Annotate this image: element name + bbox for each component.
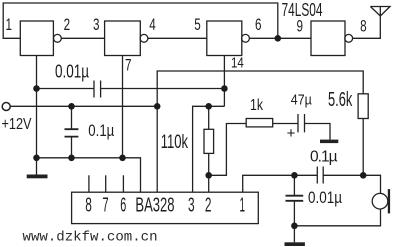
svg-text:0.1µ: 0.1µ [310, 148, 338, 165]
wire pin 7 of 74LS04 to ground row [122, 56, 124, 158]
svg-text:47µ: 47µ [291, 92, 312, 109]
wire pin 14 of 74LS04 down [223, 56, 225, 107]
inverter U1B output bubble [140, 34, 148, 42]
junction mic return at C5 bottom [291, 223, 298, 230]
wire U1A bottom pin to ground row [36, 56, 38, 158]
junction node A pin6 feedback [275, 35, 282, 42]
microphone MIC body [372, 193, 388, 209]
svg-text:14: 14 [231, 56, 244, 72]
capacitor C4 0.1u plates [317, 167, 323, 184]
svg-text:2: 2 [64, 15, 71, 34]
svg-text:BA328: BA328 [135, 195, 174, 217]
wire pin 2 to pin 3 [61, 37, 105, 39]
resistor R1 110k bottom lead [208, 153, 210, 175]
wire 0.1u to microphone [323, 175, 380, 193]
wire decoupling cap right lead to pin 14 [101, 88, 225, 90]
BA328 pin 7 stub [105, 175, 107, 192]
junction +12V corner [154, 103, 161, 110]
wire ground stem G3 [293, 226, 295, 243]
svg-text:+12V: +12V [2, 116, 33, 133]
wire pin 6 to pin 9 [249, 37, 311, 39]
svg-text:8: 8 [360, 17, 367, 36]
junction ground row left [33, 155, 40, 162]
resistor R1 110k top lead [208, 106, 210, 129]
svg-text:8: 8 [85, 194, 92, 216]
junction 0.1u top on +12V rail [68, 103, 75, 110]
capacitor C5 0.01u plates [286, 196, 304, 201]
svg-text:0.01µ: 0.01µ [308, 188, 342, 207]
capacitor C2 0.1u leads [71, 106, 73, 158]
wire BA328 pin 1 to output row [243, 175, 318, 192]
capacitor C2 0.1u plates [65, 129, 79, 136]
resistor R1 110k body [204, 129, 214, 153]
inverter U1A output bubble [54, 34, 62, 42]
junction 5.6k bottom [360, 172, 367, 179]
inverter U1D box pins 9-8 [311, 21, 345, 56]
svg-text:3: 3 [93, 15, 100, 34]
junction 0.01u right at pin 14 [221, 85, 228, 92]
terminal +12V [2, 103, 10, 111]
wire decoupling cap left lead [37, 88, 95, 90]
inverter U1A box pins 1-2 [20, 21, 53, 56]
resistor R2 1k body [246, 119, 273, 127]
wire +12V down to BA328 supply pin [156, 106, 158, 192]
ground G3 [285, 242, 305, 246]
svg-text:+: + [287, 125, 296, 142]
capacitor C5 0.01u bottom lead [293, 202, 295, 226]
wire pin 8 to antenna [352, 16, 380, 38]
svg-text:3: 3 [188, 194, 195, 216]
junction pin 7 ground [119, 155, 126, 162]
svg-text:110k: 110k [161, 132, 189, 153]
wire node B to 1k resistor [209, 124, 247, 176]
capacitor C5 0.01u top lead [293, 175, 295, 195]
ground G1 [27, 175, 48, 179]
junction node B 110k bottom [205, 172, 212, 179]
inverter U1C output bubble [242, 34, 250, 42]
svg-text:7: 7 [125, 55, 132, 74]
capacitor C3 47u plates [298, 114, 305, 132]
inverter U1C box pins 5-6 [207, 21, 242, 56]
antenna symbol [370, 7, 390, 17]
BA328 pin 6 stub [122, 175, 124, 192]
junction 0.1u bottom [68, 155, 75, 162]
wire pin 4 to pin 5 [148, 37, 207, 39]
wire +12V rail [10, 105, 157, 107]
svg-text:4: 4 [149, 15, 156, 34]
inverter U1B box pins 3-4 [105, 21, 141, 56]
svg-text:www.dzkfw.com.cn: www.dzkfw.com.cn [23, 230, 158, 246]
BA328 IC box [72, 192, 259, 223]
wire ground stem G1 [36, 158, 38, 175]
wire pin14 node to BA328 pin 3 [193, 106, 225, 192]
svg-text:5.6k: 5.6k [328, 88, 353, 111]
svg-text:1k: 1k [250, 97, 264, 114]
wire node B to BA328 pin 2 [208, 175, 210, 192]
junction output row at C5 [291, 172, 298, 179]
wire 1k to 47u [273, 123, 298, 125]
wire ground row to BA328 [37, 158, 141, 192]
svg-text:6: 6 [120, 194, 126, 216]
svg-text:5: 5 [194, 15, 201, 34]
svg-text:6: 6 [255, 15, 262, 34]
ground G2 [320, 140, 338, 144]
inverter U1D output bubble [345, 34, 353, 42]
wire feedback top from node A to pin 1 input [3, 3, 278, 38]
capacitor C1 0.01u plates [94, 81, 101, 98]
svg-text:0.01µ: 0.01µ [55, 62, 89, 82]
svg-text:7: 7 [102, 194, 108, 216]
svg-text:1: 1 [240, 194, 246, 216]
resistor R3 5.6k body [358, 94, 368, 119]
wire 47u to ground G2 [305, 124, 331, 140]
microphone MIC backplate [388, 189, 390, 213]
svg-text:1: 1 [6, 15, 13, 34]
resistor R3 5.6k bottom lead [362, 119, 364, 176]
svg-text:74LS04: 74LS04 [282, 0, 323, 20]
svg-text:0.1µ: 0.1µ [88, 121, 114, 140]
wire +12V up and across to 5.6k [157, 71, 363, 106]
junction 110k top [205, 103, 212, 110]
svg-text:2: 2 [205, 194, 212, 216]
BA328 pin 8 stub [88, 175, 90, 192]
junction 0.01u left on U1A pin line [33, 85, 40, 92]
wire microphone bottom return [294, 209, 380, 226]
